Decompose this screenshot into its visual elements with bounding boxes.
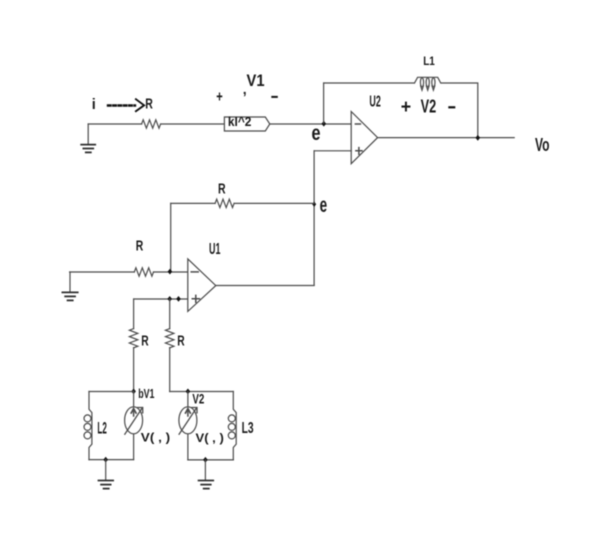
- junction U1 inverting input: [168, 269, 173, 275]
- ground G3: [99, 460, 114, 489]
- ground G1: [81, 124, 95, 152]
- svg-text:e: e: [320, 194, 328, 217]
- svg-text:V1: V1: [247, 71, 265, 90]
- node bV1: [131, 389, 136, 395]
- wire resistor R5 to node V2 corner: [169, 348, 171, 392]
- inductor L3: [228, 392, 236, 460]
- wire right branch down to resistor R5: [169, 299, 171, 329]
- wire bottom of right loop: [188, 459, 233, 461]
- svg-text:V2: V2: [421, 96, 437, 117]
- resistor R2: [215, 199, 234, 207]
- svg-text:bV1: bV1: [138, 387, 154, 401]
- svg-text:V( , ): V( , ): [196, 433, 224, 445]
- op-amp U2: [351, 112, 377, 164]
- svg-text:i: i: [92, 97, 96, 113]
- node e (top): [322, 121, 327, 127]
- wire feedback left vertical down to U1 inverting input: [170, 203, 172, 272]
- wire L1 to corner and down to output: [441, 83, 478, 138]
- svg-text:U1: U1: [209, 241, 221, 258]
- svg-text:V( , ): V( , ): [141, 432, 170, 444]
- resistor R4: [129, 329, 137, 348]
- svg-text:L1: L1: [423, 56, 435, 68]
- wire bottom of left loop: [89, 459, 134, 461]
- svg-text:kI^2: kI^2: [228, 114, 252, 129]
- junction ground tap right: [203, 457, 208, 463]
- ground G2: [62, 272, 77, 300]
- wire U2 output to Vo: [378, 137, 515, 139]
- wire feedback left segment to resistor R2: [171, 202, 215, 204]
- wire U1 noninverting input line: [134, 298, 188, 300]
- controlled source B2: [179, 392, 197, 460]
- controlled source B1: [125, 392, 143, 460]
- node V2 corner: [170, 391, 234, 393]
- junction node V2: [186, 389, 191, 395]
- wire U1 output: [216, 285, 314, 287]
- wire bV1 to inductor L2: [89, 391, 134, 393]
- ground G4: [199, 460, 214, 489]
- wire resistor R4 to node bV1: [133, 348, 135, 392]
- junction on noninverting line right: [176, 296, 181, 302]
- svg-text:V2: V2: [192, 391, 204, 406]
- wire feedback top left segment: [324, 82, 414, 84]
- label - of V2: [449, 106, 454, 108]
- svg-text:+: +: [401, 97, 411, 118]
- svg-text:R: R: [141, 332, 149, 349]
- svg-text:R: R: [136, 238, 144, 255]
- svg-text:+: +: [216, 89, 223, 106]
- svg-text:L2: L2: [97, 420, 106, 438]
- wire ground to resistor R3: [70, 271, 135, 273]
- resistor R5: [166, 329, 174, 348]
- wire R1 to source kI^2: [161, 123, 225, 125]
- wire node e up to feedback top: [323, 83, 325, 123]
- node e (middle): [312, 202, 316, 207]
- wire ground to R1: [88, 123, 141, 125]
- wire kI^2 tip to node e and on to U2 inverting input: [270, 123, 351, 125]
- dependent source kI^2: [224, 114, 269, 131]
- op-amp U1: [188, 259, 216, 312]
- inductor L1: [415, 77, 441, 90]
- wire vertical from U2 + input down through node e to U1 output: [313, 151, 315, 286]
- current direction dashed arrow: [108, 99, 144, 111]
- svg-text:U2: U2: [369, 93, 381, 110]
- wire U2 noninverting input: [314, 150, 351, 152]
- svg-text:Vo: Vo: [535, 134, 550, 155]
- resistor R3: [134, 268, 153, 276]
- junction output node: [476, 135, 481, 141]
- resistor R1: [142, 120, 161, 128]
- svg-text:R: R: [145, 95, 153, 112]
- junction on noninverting line left: [167, 296, 172, 302]
- wire noninverting corner down to resistor R4: [133, 299, 135, 329]
- junction ground tap left: [103, 457, 108, 463]
- wire resistor R2 to node e: [234, 202, 314, 204]
- svg-text:R: R: [218, 180, 226, 197]
- label - of V1: [272, 96, 277, 98]
- svg-text:e: e: [312, 122, 321, 145]
- svg-text:L3: L3: [242, 420, 254, 437]
- wire resistor R3 to U1 inverting input: [154, 271, 188, 273]
- inductor L2: [84, 392, 92, 460]
- svg-text:R: R: [177, 332, 185, 349]
